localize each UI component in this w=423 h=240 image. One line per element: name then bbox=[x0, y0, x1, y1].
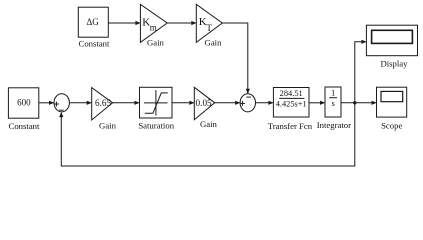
svg-text:600: 600 bbox=[17, 98, 31, 108]
svg-text:Scope: Scope bbox=[381, 120, 402, 130]
svg-text:Constant: Constant bbox=[79, 39, 110, 49]
svg-text:Constant: Constant bbox=[9, 121, 40, 131]
svg-text:Gain: Gain bbox=[147, 37, 165, 47]
svg-text:284.51: 284.51 bbox=[280, 89, 303, 98]
svg-text:Transfer Fcn: Transfer Fcn bbox=[268, 121, 313, 131]
svg-text:4.425s+1: 4.425s+1 bbox=[276, 100, 307, 109]
svg-text:Gain: Gain bbox=[99, 120, 117, 130]
svg-text:s: s bbox=[332, 98, 336, 108]
svg-text:Gain: Gain bbox=[205, 37, 223, 47]
svg-text:T: T bbox=[206, 23, 212, 33]
svg-text:Display: Display bbox=[380, 59, 408, 69]
svg-text:Saturation: Saturation bbox=[138, 120, 174, 130]
svg-text:ΔG: ΔG bbox=[86, 17, 99, 27]
svg-text:0.05: 0.05 bbox=[196, 98, 212, 108]
svg-text:6.65: 6.65 bbox=[95, 98, 111, 108]
svg-text:Gain: Gain bbox=[200, 119, 218, 129]
svg-text:Integrator: Integrator bbox=[317, 120, 351, 130]
svg-text:m: m bbox=[150, 22, 157, 32]
svg-text:1: 1 bbox=[331, 87, 335, 97]
